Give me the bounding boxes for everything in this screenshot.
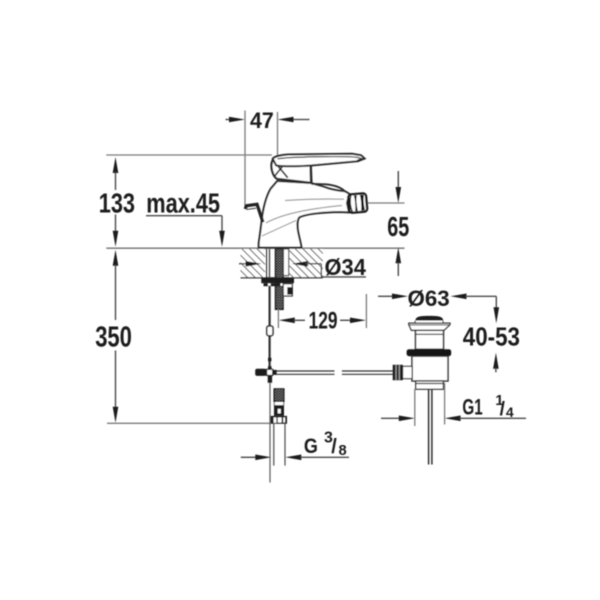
dim text G1 1/4 xyxy=(462,393,514,420)
dim 350 line with arrows xyxy=(113,250,119,423)
handle lever top inner line xyxy=(278,157,362,161)
dim 129 extension lines xyxy=(277,309,279,328)
pull rod channel in hole xyxy=(266,249,268,279)
47 ext line through body lower part xyxy=(277,184,279,248)
svg-text:40-53: 40-53 xyxy=(463,323,520,351)
pull rod xyxy=(269,249,271,285)
dim 129 arrows xyxy=(279,318,366,324)
svg-text:G1: G1 xyxy=(462,395,482,420)
svg-text:47: 47 xyxy=(250,108,274,133)
knob body xyxy=(415,321,444,324)
horizontal actuating rod segment 2 xyxy=(342,371,393,374)
svg-text:/: / xyxy=(500,399,506,420)
pull rod knob hook at rear xyxy=(245,204,263,222)
hose white band xyxy=(274,402,283,406)
dim 47 extension line left xyxy=(244,111,246,206)
deck hatch left block xyxy=(241,249,266,278)
svg-text:129: 129 xyxy=(309,308,338,335)
rubber seal xyxy=(407,349,452,356)
pull rod connector below deck xyxy=(267,326,273,336)
rod clamp cross top block xyxy=(268,366,272,369)
svg-text:8: 8 xyxy=(339,443,347,459)
handle cap xyxy=(271,158,311,183)
svg-text:350: 350 xyxy=(95,322,132,354)
side fitting on shank xyxy=(283,284,292,296)
pop-up waste: dome cap xyxy=(415,316,443,321)
aerator box xyxy=(348,193,367,213)
hose lower ferrule xyxy=(274,406,284,416)
svg-text:Ø63: Ø63 xyxy=(408,286,450,311)
dim 47 arrows xyxy=(226,117,310,123)
dim text G3/8 xyxy=(304,430,347,459)
dim 65 arrows xyxy=(396,171,402,276)
hose nut G3/8 xyxy=(271,416,287,424)
reference line: hose end level xyxy=(107,422,270,424)
handle cap right edge xyxy=(310,165,313,183)
dim O63 arrows xyxy=(378,294,499,324)
dim G3/8 arrows xyxy=(241,455,349,461)
svg-text:/: / xyxy=(331,436,337,458)
svg-text:Ø34: Ø34 xyxy=(325,254,367,280)
side inlet knurled knob xyxy=(393,365,403,380)
deck hatch right block xyxy=(290,249,323,278)
handle lever xyxy=(273,154,365,166)
rod clamp center xyxy=(267,369,273,375)
horizontal actuating rod segment 1 xyxy=(275,371,335,374)
pull rod lower part xyxy=(269,383,271,483)
dim 47 extension line right upper part xyxy=(277,112,279,158)
reference line: aerator outlet level xyxy=(367,202,405,204)
dim O34 arrows and leader xyxy=(239,261,366,277)
rod clamp cross bottom block xyxy=(268,376,272,383)
white slot right of stud xyxy=(283,249,288,276)
side inlet tube xyxy=(403,366,413,378)
spout top shelf line xyxy=(311,184,347,193)
waste body lower xyxy=(412,356,448,381)
svg-text:133: 133 xyxy=(99,188,135,219)
dim G1 1/4 extension lines xyxy=(414,389,416,426)
dim 40-53 lower arrow xyxy=(493,353,499,373)
braided hose xyxy=(274,389,284,402)
G3/8 pipe xyxy=(273,424,275,466)
dim G1 1/4 arrows xyxy=(381,416,526,422)
rod clamp right tip xyxy=(273,370,277,375)
waste bottom cap xyxy=(416,381,444,389)
svg-text:65: 65 xyxy=(387,211,409,242)
threaded stud xyxy=(275,249,283,310)
faucet inner highlight lines xyxy=(262,199,344,236)
waste body upper xyxy=(416,330,444,349)
dim 133 line with arrows xyxy=(113,157,119,247)
reference line: deck top xyxy=(106,247,404,249)
faucet body and spout xyxy=(259,181,350,248)
rod clamp left knob xyxy=(255,369,266,376)
mounting nut xyxy=(261,278,294,283)
rod clamp small block on rod xyxy=(268,358,271,362)
reference line: handle top level xyxy=(106,154,272,156)
waste tailpipe xyxy=(428,389,430,464)
svg-text:4: 4 xyxy=(506,404,514,420)
flange xyxy=(409,323,450,330)
svg-text:G: G xyxy=(304,433,318,458)
pull rod line inside body xyxy=(273,186,275,248)
svg-text:max.45: max.45 xyxy=(146,188,220,219)
deck bottom line xyxy=(241,277,323,279)
handle cap cross detail xyxy=(273,160,288,178)
